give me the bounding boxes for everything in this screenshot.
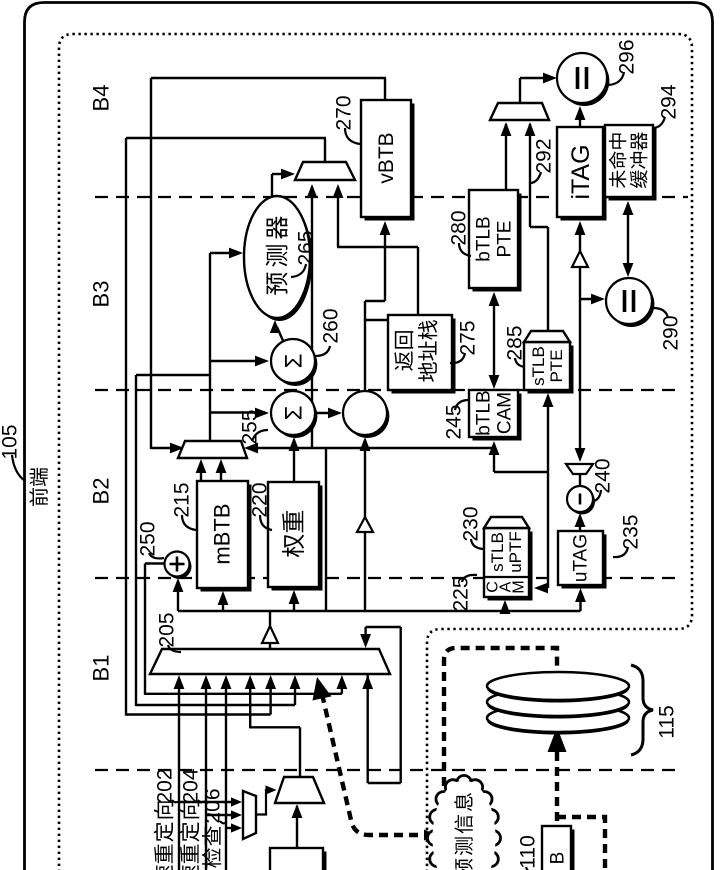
svg-text:290: 290: [659, 315, 682, 350]
svg-text:B4: B4: [89, 85, 114, 112]
svg-text:260: 260: [319, 308, 342, 343]
svg-text:Σ: Σ: [280, 354, 307, 369]
svg-text:245: 245: [442, 404, 465, 439]
svg-text:B1: B1: [89, 655, 114, 682]
svg-text:115: 115: [655, 705, 678, 738]
svg-text:215: 215: [170, 482, 193, 517]
svg-text:M: M: [511, 580, 528, 593]
svg-text:225: 225: [449, 576, 472, 611]
svg-text:iTAG: iTAG: [567, 144, 595, 199]
svg-text:230: 230: [459, 506, 482, 541]
svg-text:255: 255: [238, 409, 261, 444]
svg-text:235: 235: [619, 514, 642, 549]
svg-text:mBTB: mBTB: [210, 503, 235, 564]
svg-text:204: 204: [179, 768, 202, 803]
svg-text:250: 250: [136, 521, 159, 556]
svg-text:105: 105: [0, 424, 21, 459]
svg-text:sTLB: sTLB: [488, 532, 507, 572]
svg-text:B3: B3: [89, 281, 114, 308]
svg-text:275: 275: [456, 320, 479, 355]
svg-text:292: 292: [532, 138, 555, 173]
svg-text:bTLB: bTLB: [474, 390, 495, 435]
svg-text:PTE: PTE: [547, 349, 566, 382]
svg-text:bTLB: bTLB: [474, 216, 495, 261]
svg-text:B2: B2: [89, 478, 114, 505]
svg-text:Σ: Σ: [280, 406, 307, 421]
svg-text:294: 294: [657, 84, 680, 119]
svg-text:uTAG: uTAG: [571, 534, 592, 582]
svg-text:265: 265: [294, 230, 317, 265]
svg-text:285: 285: [503, 325, 526, 360]
svg-text:220: 220: [248, 482, 271, 517]
svg-text:PTE: PTE: [495, 221, 516, 258]
svg-text:270: 270: [332, 95, 355, 130]
svg-text:vBTB: vBTB: [375, 132, 398, 183]
svg-text:sTLB: sTLB: [529, 346, 548, 386]
svg-text:280: 280: [447, 210, 470, 245]
svg-text:uPTF: uPTF: [506, 531, 525, 573]
svg-text:202: 202: [153, 768, 176, 803]
svg-text:296: 296: [615, 39, 638, 74]
svg-text:240: 240: [591, 458, 614, 493]
svg-text:205: 205: [155, 612, 178, 647]
svg-text:206: 206: [201, 788, 224, 823]
svg-text:110: 110: [516, 835, 539, 868]
svg-text:B: B: [548, 852, 569, 865]
svg-text:CAM: CAM: [495, 392, 516, 434]
